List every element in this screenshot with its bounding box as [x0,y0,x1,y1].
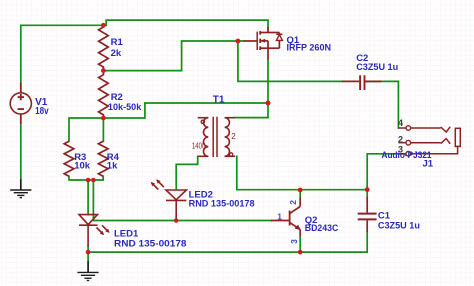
svg-text:C3Z5U 1u: C3Z5U 1u [356,62,398,73]
node C1 top [365,187,370,192]
resistor R4 [98,141,108,176]
svg-text:4: 4 [398,118,403,128]
wire T1 primary bottom to LED2 [176,156,198,184]
wire R3 R4 bottom rail [69,176,103,180]
base lead [271,220,290,222]
svg-text:3: 3 [289,239,299,244]
pin 3 [398,153,406,155]
node Q2 emitter [298,250,303,255]
resistor R1 [99,25,109,70]
node LED1 cathode [86,250,91,255]
drain lead [267,27,269,33]
T1 winding labels [192,132,236,151]
pin numbers [277,118,403,244]
wire R2 bottom to T1 node [103,103,268,118]
wire bottom rail [88,232,367,252]
LED1 [79,215,110,247]
MOSFET Q1 [244,27,283,60]
wire collector rail up to J1 pin3 [367,154,405,190]
secondary bottom lead [225,155,236,157]
secondary top lead [225,117,236,119]
body diode [278,33,280,35]
secondary winding [225,118,230,157]
core [212,117,214,157]
svg-text:IRFP 260N: IRFP 260N [287,42,332,53]
wire gate junction down to C2 [238,41,342,81]
svg-text:2: 2 [231,132,236,141]
wire rail bypass to Q2 base [93,180,271,221]
wire V1 top to R1 top [21,25,104,82]
node R2 bottom [101,116,106,121]
svg-text:1: 1 [277,212,282,222]
source [260,47,268,49]
wire R1 top jog to Q1 drain [103,20,268,27]
node source T1 [266,101,271,106]
svg-text:2k: 2k [111,48,122,59]
svg-text:10k-50k: 10k-50k [108,102,142,113]
svg-text:RND 135-00178: RND 135-00178 [114,239,187,250]
node rail right [91,178,96,183]
svg-text:1400: 1400 [192,142,206,151]
node R1 top [101,23,106,28]
connector J1 audio jack [398,126,460,156]
svg-text:RND 135-00178: RND 135-00178 [189,199,255,210]
svg-text:T1: T1 [213,94,225,105]
wire rail to LED1 anode [87,180,89,215]
primary bottom lead [198,155,209,157]
plug bar [455,128,460,146]
ground under LED1 [77,261,98,281]
pin 2 [398,142,406,144]
wire node down to T1 secondary top [235,103,268,118]
resistor R2 [99,71,109,118]
wire R1/R2 junction to gate jog [103,41,244,71]
svg-text:1k: 1k [107,160,118,171]
LED1 green overlay wire above ground [87,252,89,261]
resistor R3 [64,141,74,176]
svg-text:J1: J1 [423,159,434,170]
pin 4 [398,127,406,129]
gate lead [244,40,257,42]
node R1/R2 [101,68,106,73]
node rail left [86,178,91,183]
node Q2 collector [298,188,303,193]
base bar [289,211,291,226]
primary top lead [198,117,209,119]
svg-text:BD243C: BD243C [305,223,339,234]
svg-text:C3Z5U 1u: C3Z5U 1u [378,221,420,232]
svg-text:18v: 18v [35,106,49,117]
wire V1 bottom to ground [20,124,22,180]
wire C1 top lead green part [366,190,368,197]
channel stubs [259,31,261,34]
svg-text:3: 3 [398,144,403,154]
wire Q2 collector green part [299,190,301,198]
wire T1 secondary bottom to collector rail [237,156,367,189]
emitter [290,222,301,229]
transistor Q2 [271,198,301,237]
wire Q1 source down to node [267,60,269,103]
capacitor C1 [358,197,377,232]
primary polarity dot [201,120,204,123]
gate bar [256,32,258,50]
svg-text:R1: R1 [111,37,124,48]
voltage source V1 [10,83,31,124]
svg-text:2: 2 [288,200,298,205]
capacitor C2 [342,75,381,90]
ground under V1 [10,179,31,197]
svg-text:2: 2 [398,135,403,145]
wire Q2 emitter green part [299,236,301,252]
bulk arrow [260,40,268,42]
wire R2 bottom to R3 R4 tops [69,118,103,141]
primary winding [203,118,208,157]
svg-text:10k: 10k [74,160,91,171]
collector [290,206,301,213]
wire C2 right to J1 pin4 [365,81,398,128]
transformer T1 [198,117,236,157]
secondary polarity dot [229,153,232,156]
node gate [236,39,241,44]
LED2 [151,179,187,220]
wire LED1 cathode junction [87,246,89,252]
node LED2 cathode [174,218,179,223]
